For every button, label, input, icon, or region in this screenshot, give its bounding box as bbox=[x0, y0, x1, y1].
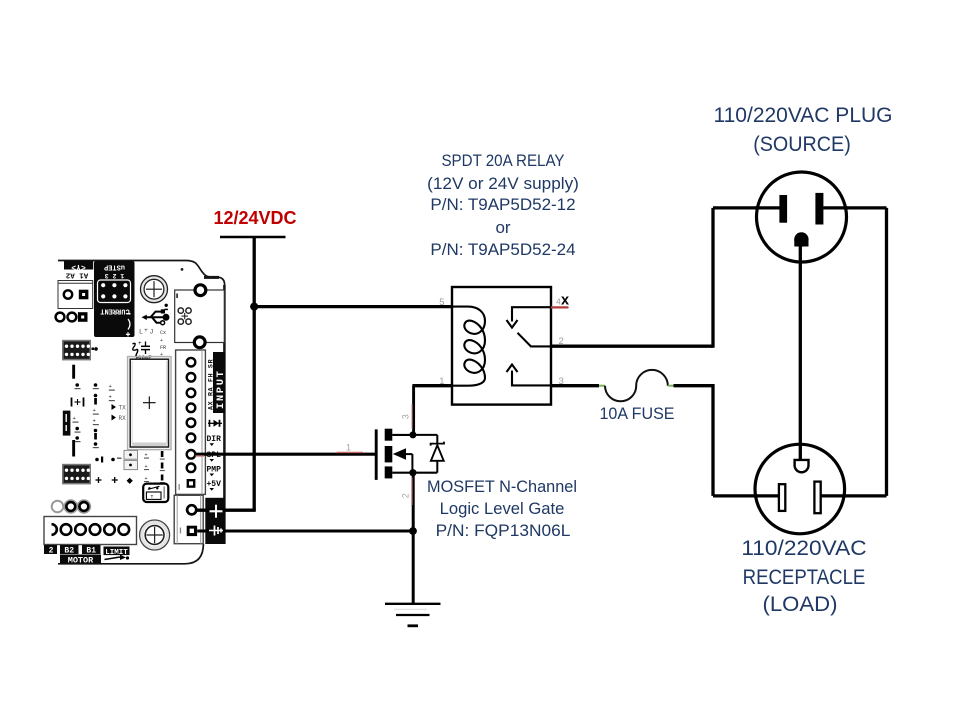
board DCDC black chip on left edge bbox=[63, 411, 71, 436]
svg-text:+: + bbox=[138, 340, 142, 347]
wire stub receptacle right inside bbox=[821, 494, 846, 497]
svg-text:LIMIT: LIMIT bbox=[105, 549, 128, 557]
relay coil bbox=[452, 307, 485, 386]
board MOTOR label bbox=[60, 555, 101, 566]
label 12/24VDC bbox=[105, 207, 405, 229]
svg-text:+: + bbox=[93, 407, 96, 414]
svg-text:2: 2 bbox=[49, 547, 54, 556]
node source-minus junction bbox=[409, 527, 417, 535]
plug P1 110/220VAC circle bbox=[757, 172, 847, 262]
board two plus boxes under module bbox=[124, 450, 138, 469]
PCB board outline bbox=[58, 261, 225, 564]
wire junction to relay pin 5 bbox=[254, 305, 452, 308]
wire plug ground pin to receptacle ground bbox=[799, 246, 802, 462]
plug ground pin bbox=[794, 232, 808, 246]
svg-text:L: L bbox=[139, 329, 143, 336]
receptacle ground slot bbox=[795, 460, 809, 472]
board INPUT pin connector bbox=[176, 350, 206, 494]
svg-text:3: 3 bbox=[401, 414, 411, 419]
board small cross marks row bbox=[96, 477, 118, 483]
wire stub receptacle left inside bbox=[754, 494, 779, 497]
svg-text:B1: B1 bbox=[86, 547, 96, 556]
MOSFET red pin marks bbox=[337, 404, 413, 505]
board vertical silk bar 1 bbox=[72, 365, 75, 379]
label receptacle title bbox=[642, 536, 960, 562]
svg-text:DIR: DIR bbox=[207, 435, 222, 444]
svg-text:+: + bbox=[160, 338, 163, 344]
board dot pair marks above module bbox=[141, 363, 161, 370]
svg-text:B2: B2 bbox=[64, 547, 74, 556]
wire stub plug left inside bbox=[755, 206, 780, 209]
board B2 B1 pills bbox=[44, 545, 101, 556]
svg-text:3: 3 bbox=[559, 376, 564, 387]
wire minus terminal to source node bbox=[197, 530, 413, 533]
board A1 A2 label (rotated) bbox=[65, 271, 88, 279]
board driver pads box top-left bbox=[58, 281, 93, 309]
label plug title bbox=[653, 103, 953, 129]
wire SPL gate wire bbox=[195, 453, 376, 456]
wire relay pin 3 to fuse bbox=[551, 384, 599, 387]
MOSFET body diode bbox=[413, 435, 444, 473]
svg-text:+: + bbox=[109, 394, 112, 401]
board small silk column right of cap bbox=[160, 330, 166, 365]
board 100mF capacitor bbox=[133, 340, 152, 361]
board mounting hole bottom bbox=[140, 520, 170, 550]
svg-text:<Y>: <Y> bbox=[71, 262, 86, 271]
board silk labels M FB1 Pw column bbox=[144, 451, 165, 483]
wire V+ vertical from rail to + terminal bbox=[196, 237, 256, 510]
board top-left Y-axis black bar bbox=[64, 261, 93, 271]
wire MOSFET source to ground bbox=[412, 472, 415, 604]
label MOSFET text block bbox=[358, 476, 645, 498]
receptacle right slot bbox=[814, 482, 820, 514]
svg-text:J: J bbox=[150, 329, 154, 336]
ground symbol bbox=[385, 604, 441, 626]
board big driver module bbox=[128, 357, 171, 450]
relay switch common arrow (pin 4) bbox=[507, 307, 552, 327]
relay pin number labels bbox=[439, 297, 564, 387]
relay switch blade to pin 2 bbox=[518, 333, 552, 347]
svg-text:A1 A2: A1 A2 bbox=[65, 271, 88, 279]
board pin labels DIR SPL PMP +5V bbox=[207, 435, 222, 491]
board discrete silk parts left column bbox=[72, 383, 84, 442]
svg-text:MOTOR: MOTOR bbox=[68, 555, 94, 565]
board MOTOR terminal block bbox=[44, 517, 137, 545]
wire plug right to receptacle right bbox=[821, 208, 887, 496]
board power black label box bbox=[205, 498, 225, 544]
board vertical silk bar 2 bbox=[72, 440, 75, 457]
label 10A FUSE bbox=[495, 403, 779, 425]
relay K1 SPDT box bbox=[452, 287, 551, 405]
board USB trident icon bbox=[142, 304, 170, 325]
relay NO contact arrow (pin 3) bbox=[507, 365, 552, 386]
svg-text:+: + bbox=[93, 418, 96, 425]
fuse F1 10A bbox=[599, 370, 674, 401]
svg-text:uSTEP: uSTEP bbox=[104, 262, 125, 270]
board third silk column with TX RX bbox=[109, 383, 127, 422]
receptacle left slot bbox=[779, 484, 785, 511]
board jumper relay box bottom bbox=[143, 484, 168, 502]
svg-text:PMP: PMP bbox=[207, 465, 222, 474]
svg-text:TX: TX bbox=[119, 405, 127, 412]
plug left prong bbox=[779, 195, 787, 223]
red pin mark SPL bbox=[196, 455, 205, 457]
board power terminal block bbox=[174, 495, 203, 543]
board mounting hole top bbox=[141, 276, 168, 303]
board ring pads pair bbox=[52, 501, 90, 513]
receptacle J1 circle bbox=[755, 444, 845, 534]
svg-text:FR: FR bbox=[160, 345, 166, 351]
board LIMIT label bbox=[104, 547, 130, 561]
svg-text:+: + bbox=[73, 415, 76, 422]
board diode silk right bbox=[208, 420, 222, 427]
relay pin 4 unconnected red stub bbox=[551, 306, 569, 308]
svg-text:T: T bbox=[151, 494, 154, 500]
wire relay pin 1 to MOSFET drain bbox=[412, 386, 452, 435]
svg-text:+: + bbox=[109, 383, 112, 390]
svg-text:x: x bbox=[561, 293, 569, 309]
svg-text:1: 1 bbox=[439, 376, 444, 387]
wire relay pin 2 to plug left bbox=[551, 208, 780, 348]
svg-text:Cx: Cx bbox=[160, 330, 166, 336]
svg-text:+5V: +5V bbox=[207, 480, 222, 489]
wire fuse to receptacle left bbox=[674, 384, 780, 496]
MOSFET pin number labels bbox=[346, 414, 411, 498]
board L+J silk mark bbox=[139, 327, 154, 336]
wire 12/24VDC rail symbol bbox=[220, 236, 286, 238]
board INPUT black label box bbox=[207, 352, 227, 413]
board diamond dot bbox=[127, 478, 133, 484]
wire stub receptacle ground inside bbox=[799, 444, 802, 462]
svg-text:1 2 3: 1 2 3 bbox=[105, 272, 125, 279]
board dot-bracket pairs lower bbox=[95, 457, 121, 463]
board middle silk column bbox=[93, 383, 99, 448]
board 2x5 header upper bbox=[63, 341, 98, 360]
label x marker on pin 4 bbox=[561, 293, 569, 309]
board USB connector sub-box bbox=[175, 285, 225, 348]
MOSFET Q1 bbox=[376, 429, 413, 480]
svg-text:1: 1 bbox=[346, 443, 351, 453]
svg-text:5: 5 bbox=[439, 297, 444, 308]
MOSFET source node bbox=[409, 469, 416, 476]
svg-text:CURRENT: CURRENT bbox=[100, 307, 129, 315]
board pad row second bbox=[56, 312, 88, 322]
wire stub plug ground inside bbox=[799, 246, 802, 264]
board 2x5 header lower bbox=[63, 465, 90, 484]
board power label overlay bbox=[209, 505, 223, 536]
node junction V+ to relay coil bbox=[250, 303, 258, 311]
wire stub plug right inside bbox=[823, 206, 847, 209]
svg-text:INPUT: INPUT bbox=[215, 369, 227, 409]
MOSFET drain node bbox=[409, 431, 416, 438]
plug right prong bbox=[815, 193, 823, 225]
label SPDT relay text block bbox=[370, 150, 637, 172]
svg-text:+: + bbox=[144, 327, 148, 334]
svg-text:2: 2 bbox=[559, 336, 564, 347]
board CURRENT/USTEP jumper block bbox=[94, 261, 135, 337]
svg-text:RX: RX bbox=[119, 415, 127, 422]
